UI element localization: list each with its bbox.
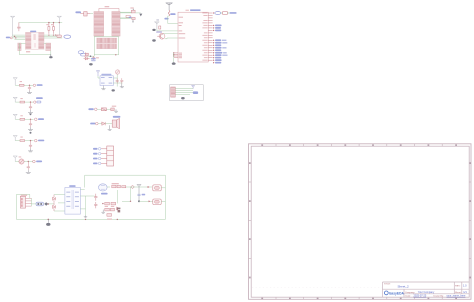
optocoupler label bbox=[101, 193, 108, 195]
switch S1 label bbox=[130, 7, 133, 8]
ground under U3 bbox=[172, 62, 176, 65]
net flag row pin1 bbox=[213, 12, 237, 15]
svg-text:Your Company: Your Company bbox=[418, 291, 435, 294]
svg-text:Sheet_2: Sheet_2 bbox=[398, 284, 410, 288]
header J3 right bbox=[46, 43, 51, 51]
transformer T1 label bbox=[69, 185, 75, 187]
svg-text:1.0: 1.0 bbox=[463, 285, 467, 288]
ground right bbox=[120, 83, 124, 87]
junction dots on rail bbox=[48, 22, 60, 23]
transistor Q2 bbox=[85, 53, 88, 57]
title block texts bbox=[384, 284, 467, 298]
row 1: net label bbox=[88, 108, 93, 110]
power flag bbox=[191, 86, 194, 89]
svg-text:Drawn By:: Drawn By: bbox=[434, 295, 444, 298]
diode D1 bbox=[84, 57, 90, 60]
diode D4 bbox=[102, 122, 105, 125]
junction bbox=[90, 55, 92, 57]
value labels R1 R2 bbox=[46, 24, 49, 25]
connector J5 row B bbox=[97, 44, 117, 49]
net label bbox=[193, 91, 198, 94]
net label bubble bbox=[64, 35, 71, 38]
label under U1 bbox=[26, 51, 30, 52]
U3 right pin names bbox=[202, 13, 207, 61]
resistor R bbox=[19, 84, 24, 86]
wire Q1 to U3 bbox=[165, 37, 178, 40]
wire bbox=[126, 186, 152, 188]
IC U3 name label bbox=[190, 9, 201, 11]
power flag dark bbox=[137, 185, 141, 202]
ground under U2 left bbox=[101, 86, 105, 90]
crystal X1 bbox=[57, 35, 62, 38]
wire diodes to transformer bbox=[54, 195, 65, 211]
wires bbox=[175, 89, 193, 95]
junction dots bottom rail bbox=[48, 219, 119, 221]
svg-text:REV:: REV: bbox=[455, 286, 460, 288]
resistor R1 bbox=[48, 23, 50, 34]
capacitor C7 bbox=[94, 202, 97, 208]
diode D3 bbox=[101, 108, 106, 111]
capacitor bbox=[92, 56, 95, 60]
ground bbox=[152, 39, 156, 41]
wire bbox=[157, 29, 178, 31]
ground bbox=[89, 63, 93, 65]
frame grid letters bbox=[249, 144, 471, 299]
capacitor C8 blue bbox=[137, 194, 140, 195]
U3 right pin stubs bbox=[208, 13, 212, 60]
diode D5 bbox=[53, 195, 56, 203]
svg-text:Sheet:: Sheet: bbox=[455, 291, 462, 294]
ground bbox=[27, 91, 32, 94]
net labels group1 bbox=[213, 25, 222, 32]
net label 2 bbox=[164, 18, 168, 20]
capacitor bbox=[28, 85, 31, 90]
ground bbox=[139, 14, 142, 17]
buzzer LS1 bbox=[112, 118, 119, 128]
optocoupler U4 bbox=[99, 184, 108, 191]
wires port to U1 bbox=[12, 35, 25, 39]
transistor Q1 label bbox=[156, 31, 162, 33]
junction bbox=[115, 54, 116, 55]
power flag VCC top-right of U1 bbox=[57, 16, 61, 35]
port circle bbox=[96, 122, 99, 125]
wire bbox=[98, 123, 112, 125]
transistor Q1 bbox=[157, 33, 165, 39]
group box bbox=[170, 85, 204, 101]
wire vertical J8 top bbox=[29, 194, 31, 198]
ground below R4 bbox=[132, 20, 134, 23]
wire bbox=[48, 203, 54, 205]
wire row2 bbox=[139, 200, 153, 202]
capacitor C5 bbox=[120, 78, 123, 83]
title block outline bbox=[383, 282, 470, 297]
LED D2 bbox=[115, 70, 119, 74]
wires lower loop bbox=[19, 43, 50, 54]
input block 4 bbox=[13, 136, 44, 152]
resistor R4 bbox=[132, 17, 135, 19]
wires U1 to X1 bbox=[44, 35, 62, 38]
resistor R2 bbox=[53, 23, 55, 34]
U3 left bottom pin stubs bbox=[174, 53, 178, 58]
sheet 2 frame outer border bbox=[249, 144, 472, 299]
diode D7 + resistor row bbox=[112, 185, 126, 188]
fuse F1 bbox=[36, 202, 44, 206]
wire to ground bbox=[173, 53, 175, 62]
inductor L1 bbox=[168, 11, 170, 16]
capacitor C1 bbox=[17, 23, 20, 31]
frame tick marks right bbox=[469, 182, 471, 259]
IC U3 body bbox=[178, 12, 208, 62]
EasyEDA logo bbox=[384, 291, 404, 295]
wires J4 right bbox=[120, 12, 133, 18]
row 2: net label bbox=[90, 123, 95, 125]
wire bbox=[97, 108, 111, 110]
diode D6 bbox=[53, 203, 56, 211]
diode small bbox=[148, 186, 150, 188]
wires bbox=[98, 74, 123, 87]
antenna flag bbox=[13, 78, 17, 86]
varistor RV1 bbox=[19, 159, 24, 164]
wire P2 to J4 bbox=[90, 13, 93, 15]
wire transformer right top bbox=[80, 189, 84, 191]
wire row 2 bbox=[120, 18, 132, 20]
junction bbox=[29, 85, 30, 86]
power flag VCC top-left bbox=[10, 16, 14, 36]
diode D8 diamond bbox=[131, 185, 135, 188]
switch S1 bbox=[131, 10, 135, 13]
frame tick marks left bbox=[249, 182, 252, 259]
sheet 2 frame inner border bbox=[251, 146, 469, 297]
junction dots bbox=[14, 36, 17, 39]
pin header J4 column A bbox=[94, 12, 104, 37]
svg-text:TITLE:: TITLE: bbox=[384, 284, 391, 286]
input block 3 bbox=[13, 114, 44, 133]
input block 2 bbox=[13, 97, 43, 115]
connector K2 bbox=[153, 199, 161, 205]
pin header J4 column B bbox=[112, 12, 120, 37]
ground bbox=[108, 125, 112, 130]
net labels group2 bbox=[213, 39, 227, 53]
svg-text:2025-07-25: 2025-07-25 bbox=[414, 295, 427, 298]
connector J7 body bbox=[107, 146, 114, 166]
power flag bbox=[154, 22, 159, 29]
power flag bbox=[96, 71, 100, 76]
wire top rail bbox=[19, 22, 62, 24]
wire to switch bbox=[120, 12, 132, 14]
svg-text:your_name_here: your_name_here bbox=[447, 295, 467, 298]
junction bbox=[48, 203, 50, 205]
wire transformer right rows bbox=[80, 196, 94, 216]
feedback resistor row3 bbox=[105, 202, 119, 216]
ground bbox=[181, 97, 185, 99]
input block 5 bbox=[13, 156, 42, 173]
frame tick marks bottom bbox=[276, 297, 442, 299]
port circle bbox=[33, 84, 35, 86]
connector J8 bbox=[20, 196, 25, 208]
connector J6 bbox=[171, 87, 176, 97]
antenna ANT1 bbox=[166, 3, 173, 10]
connector K1 bbox=[153, 185, 161, 191]
junction cross bbox=[138, 200, 140, 202]
junction dots column bbox=[173, 52, 174, 57]
port circle bbox=[95, 108, 98, 111]
ground bbox=[114, 109, 118, 112]
IC U1 body bbox=[25, 33, 44, 50]
wire bbox=[163, 33, 177, 35]
net label L1 bbox=[170, 13, 175, 15]
net label bbox=[129, 17, 132, 18]
connector P2 bbox=[80, 12, 90, 16]
buzzer LS1 label bbox=[113, 116, 121, 118]
pins + ports bbox=[93, 148, 107, 165]
transformer T1 body bbox=[65, 188, 81, 215]
ground under U2 mid bbox=[112, 89, 115, 91]
header J2 left bbox=[18, 43, 21, 51]
regulator U2 label bbox=[101, 74, 111, 75]
resistor R3 bbox=[126, 15, 130, 17]
wire antenna to U3 bbox=[168, 16, 178, 24]
connector J8 pins bbox=[26, 198, 32, 206]
ground left of row3 bbox=[101, 210, 105, 214]
connector J8 label bbox=[21, 195, 27, 196]
wires mid verticals bbox=[107, 187, 131, 203]
ground main bbox=[46, 219, 50, 226]
net labels group3 bbox=[213, 54, 228, 63]
wire loop around J5 bbox=[86, 37, 119, 57]
ground below J3 bbox=[49, 55, 52, 59]
value label bbox=[112, 106, 116, 107]
wire bbox=[15, 84, 33, 86]
ground small bbox=[84, 216, 87, 218]
svg-text:EasyEDA: EasyEDA bbox=[389, 291, 404, 295]
svg-text:1/1: 1/1 bbox=[463, 291, 467, 294]
IC U1 label bbox=[30, 31, 36, 33]
resistor R5 bbox=[159, 26, 161, 29]
connector P2 label bbox=[75, 11, 81, 13]
net label bubbles bottom-left bbox=[78, 51, 85, 56]
regulator U2 body bbox=[100, 76, 113, 86]
capacitor C4 bbox=[116, 78, 119, 83]
input block 1 bbox=[13, 78, 43, 94]
header J4 label bbox=[105, 6, 110, 7]
header J4 top bracket bbox=[99, 8, 119, 11]
connector J5 row A bbox=[97, 38, 117, 43]
U3 left pin names bbox=[179, 17, 186, 59]
svg-text:Company:: Company: bbox=[405, 292, 415, 294]
wire outer loop left bbox=[17, 175, 166, 219]
net label bbox=[91, 58, 96, 60]
port P1 label bbox=[6, 37, 10, 39]
wire to fuse bbox=[32, 203, 37, 205]
component bbox=[111, 108, 114, 111]
zener + opto bits bbox=[117, 208, 121, 213]
net label bbox=[37, 84, 43, 86]
ground bbox=[152, 29, 155, 31]
faint guide line bbox=[252, 286, 382, 288]
inrush thermistor bbox=[44, 202, 48, 206]
port P1 pin circle bbox=[10, 37, 12, 39]
wire k1 k2 right loop bbox=[161, 188, 165, 202]
svg-text:Date:: Date: bbox=[406, 295, 412, 298]
wire switch to ground bbox=[135, 12, 141, 14]
frame tick marks top bbox=[276, 144, 442, 146]
capacitor C6 bbox=[94, 194, 97, 201]
